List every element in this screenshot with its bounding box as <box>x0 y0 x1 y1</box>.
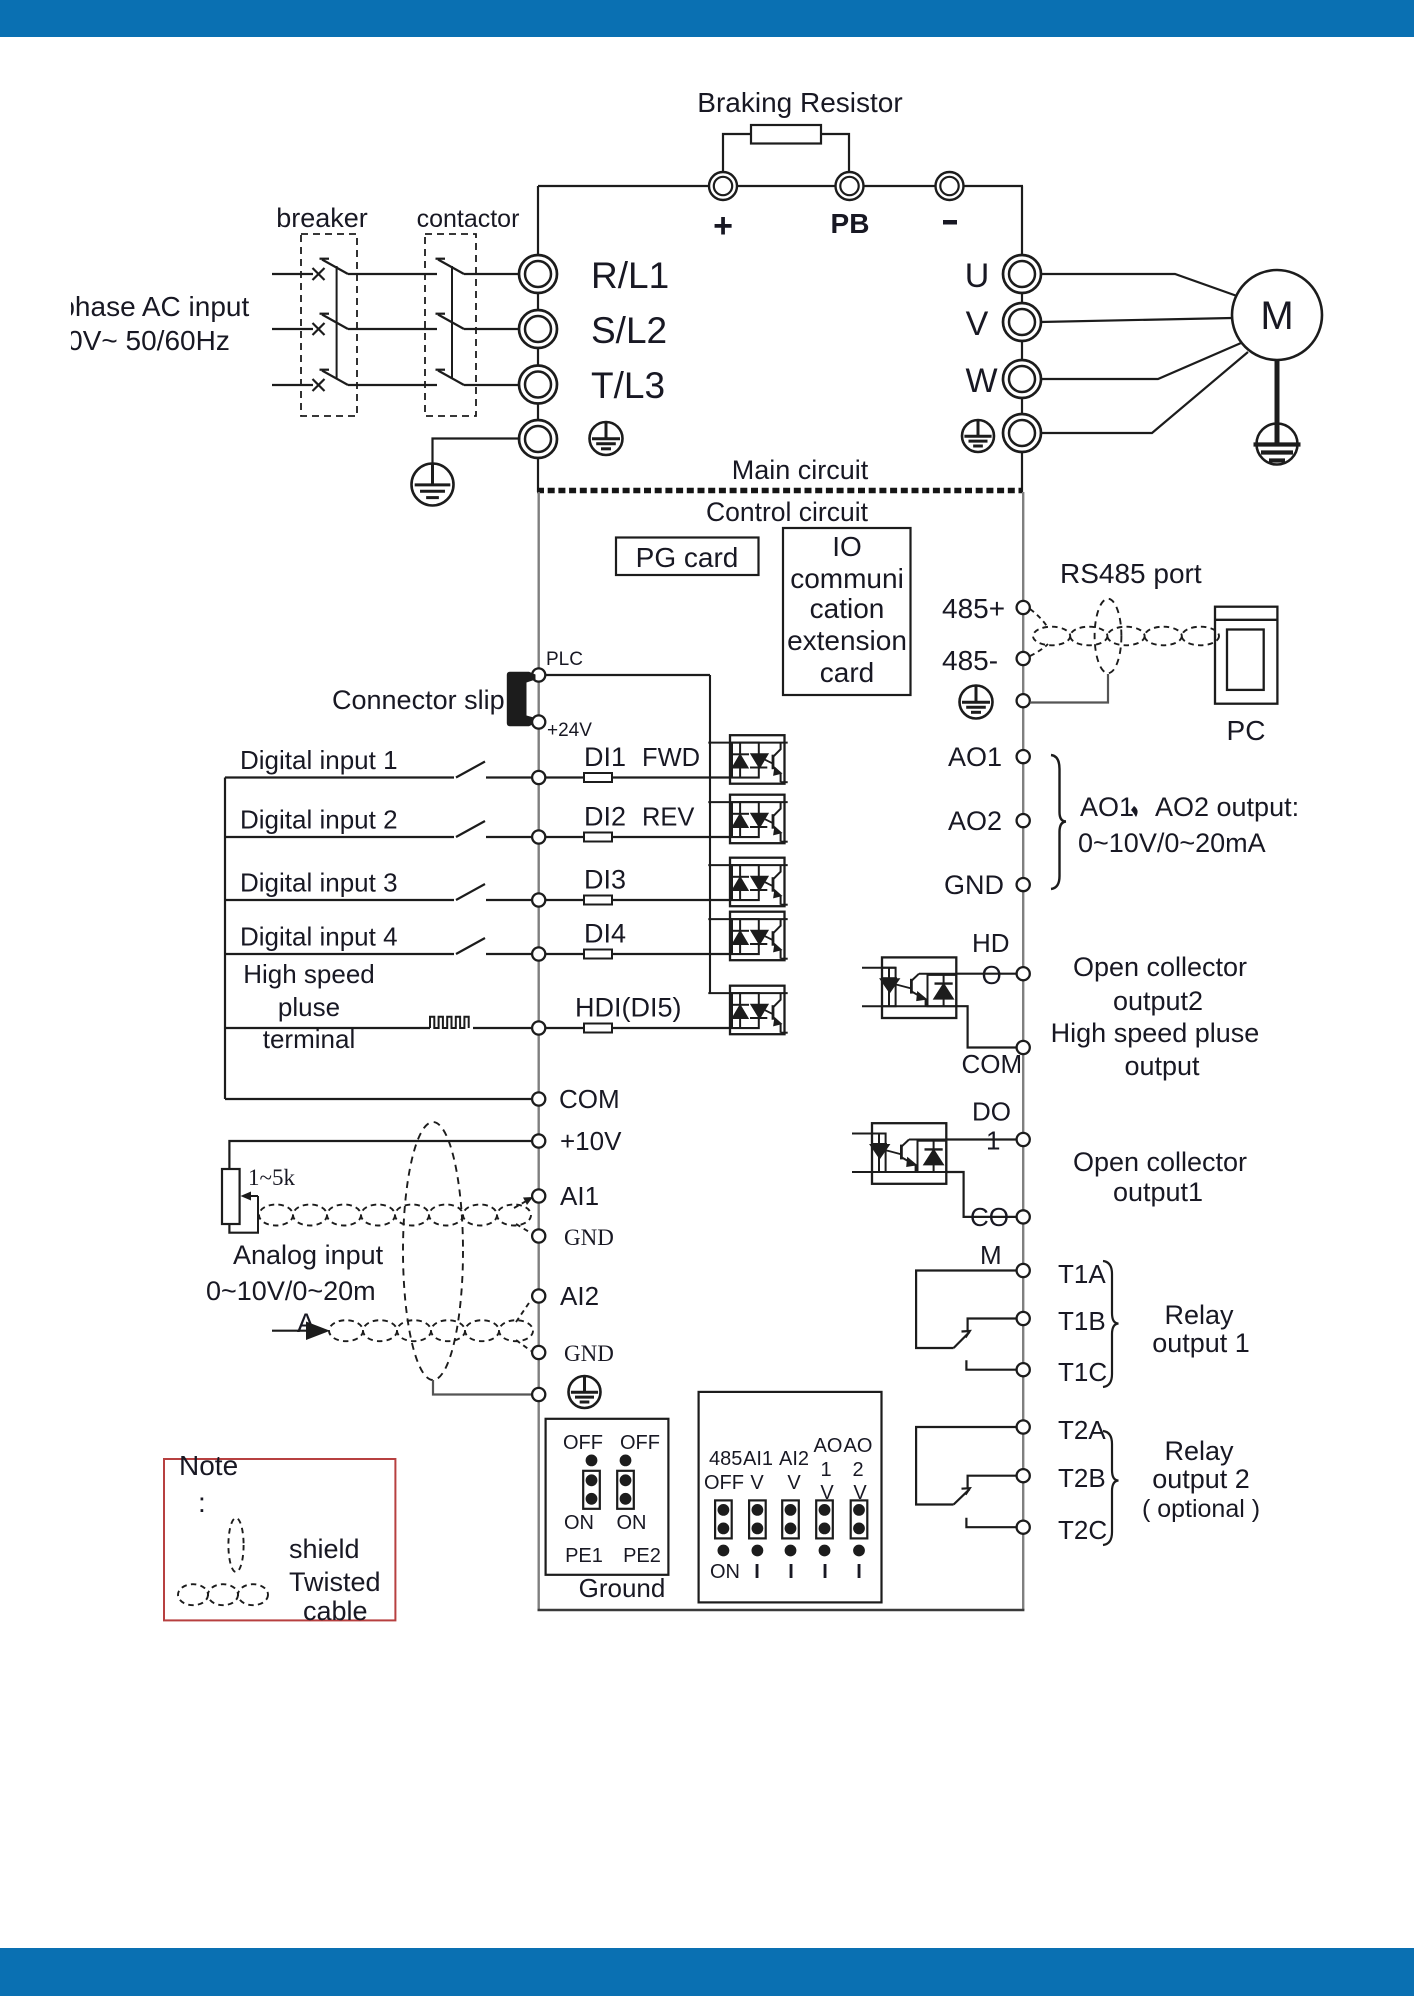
terminal DI4 <box>532 947 545 960</box>
svg-text:DI3: DI3 <box>584 865 626 895</box>
wire 485- into pair <box>1030 644 1048 656</box>
terminal T1C <box>1017 1363 1030 1376</box>
box config DIP <box>699 1392 882 1603</box>
terminal AI1 <box>532 1189 545 1202</box>
svg-text:output: output <box>1124 1051 1200 1081</box>
svg-text:PG card: PG card <box>636 542 739 573</box>
svg-text:Digital input 4: Digital input 4 <box>240 922 398 952</box>
svg-text:AO1: AO1 <box>948 742 1002 772</box>
PC box <box>1215 607 1277 704</box>
wire Digital input 2 to switch <box>225 836 454 838</box>
note twisted pair <box>178 1584 268 1605</box>
svg-text:High speed: High speed <box>243 959 375 989</box>
svg-text:PC: PC <box>1227 715 1266 746</box>
brace AO <box>1051 755 1066 889</box>
switch Digital input 1 <box>456 762 485 778</box>
svg-text:T2C: T2C <box>1058 1515 1107 1545</box>
jumper dip1 <box>715 1500 732 1538</box>
svg-text:T2A: T2A <box>1058 1415 1106 1445</box>
note box <box>164 1459 395 1620</box>
wire U to motor <box>1040 274 1237 296</box>
wire switch to terminal DI1 <box>486 776 532 778</box>
relay common pole <box>916 1271 1017 1349</box>
wire bus to COM <box>225 1098 532 1100</box>
label ideographic comma <box>1131 806 1138 817</box>
terminal COM left <box>532 1092 545 1105</box>
svg-text:ON: ON <box>564 1512 594 1534</box>
terminal PB <box>836 172 864 200</box>
wire Digital input 1 to switch <box>225 776 454 778</box>
wire input L2 segment1 <box>272 328 313 330</box>
svg-text:HD: HD <box>972 928 1010 958</box>
breaker pole X L2 <box>313 323 325 335</box>
contactor blade L3 <box>436 370 465 385</box>
svg-text:Digital input 3: Digital input 3 <box>240 868 398 898</box>
wire 485+ into pair <box>1030 609 1048 628</box>
terminal PE analog <box>532 1388 545 1401</box>
terminal PE 485 <box>1017 694 1030 707</box>
svg-text:T2B: T2B <box>1058 1463 1106 1493</box>
contactor link line <box>451 266 453 378</box>
wire top bus left <box>538 185 709 187</box>
wire PE left to earth <box>433 439 521 465</box>
resistor DI2 <box>584 833 612 842</box>
svg-text:+: + <box>713 207 733 245</box>
resistor DI3 <box>584 896 612 905</box>
terminal COM right <box>1017 1041 1030 1054</box>
svg-text:pluse: pluse <box>278 992 340 1022</box>
svg-text:DI2: DI2 <box>584 802 626 832</box>
terminal T2B <box>1017 1469 1030 1482</box>
terminal AO1 <box>1017 750 1030 763</box>
svg-text:O: O <box>982 960 1002 990</box>
terminal PE left <box>519 420 557 458</box>
svg-text:( optional ): ( optional ) <box>1142 1495 1260 1523</box>
terminal - <box>936 172 964 200</box>
svg-text:T/L3: T/L3 <box>591 365 665 406</box>
terminal DI2 <box>532 830 545 843</box>
svg-text:Braking Resistor: Braking Resistor <box>697 87 902 118</box>
svg-text:PE2: PE2 <box>623 1545 661 1567</box>
terminal 485+ <box>1017 601 1030 614</box>
svg-text:Main circuit: Main circuit <box>732 455 869 485</box>
jumper dip2 <box>749 1500 766 1538</box>
terminal PE right <box>1003 414 1041 452</box>
separator dotted line <box>537 488 1022 494</box>
svg-text:OFF: OFF <box>620 1432 660 1454</box>
terminal U <box>1003 255 1041 293</box>
optocoupler HDI(DI5) <box>708 986 787 1034</box>
svg-text:Open collector: Open collector <box>1073 952 1247 982</box>
note shield ellipse <box>228 1518 243 1572</box>
earth symbol near PE left <box>590 422 623 455</box>
svg-text:OFF: OFF <box>563 1432 603 1454</box>
twisted pair RS485 <box>1033 627 1219 646</box>
svg-text:output2: output2 <box>1113 986 1203 1016</box>
dot dip3 bottom <box>785 1545 797 1557</box>
svg-text::: : <box>198 1487 206 1518</box>
resistor braking <box>751 125 821 144</box>
switch Digital input 3 <box>456 884 485 900</box>
terminal +10V <box>532 1134 545 1147</box>
wire DO opto to CO <box>946 1172 1016 1217</box>
svg-text:AI1: AI1 <box>743 1448 773 1470</box>
relay NC contact wire <box>966 1360 1016 1370</box>
svg-text:IO: IO <box>832 531 862 562</box>
svg-text:M: M <box>980 1240 1002 1270</box>
box PG card <box>616 538 759 576</box>
optocoupler DI1 <box>708 735 787 784</box>
box ground DIP <box>546 1419 669 1575</box>
svg-text:V: V <box>966 305 989 343</box>
jumper dip4 <box>816 1500 833 1538</box>
optocoupler DI2 <box>708 795 787 844</box>
wire resistor DI1 to opto <box>612 776 730 778</box>
svg-text:2: 2 <box>852 1459 863 1481</box>
breaker pole X L1 <box>313 268 325 280</box>
wire chain2 to AI2 <box>516 1300 531 1322</box>
wire V to motor <box>1040 318 1232 322</box>
terminal DO <box>1017 1133 1030 1146</box>
wire DI3 to resistor <box>545 899 584 901</box>
svg-text:Note: Note <box>179 1450 238 1481</box>
wire HD opto to COM <box>956 1006 1016 1047</box>
relay blade <box>954 1488 970 1504</box>
earth symbol bottom left <box>412 464 454 506</box>
svg-text:Analog input: Analog input <box>233 1240 384 1270</box>
svg-text:Open collector: Open collector <box>1073 1147 1247 1177</box>
dot dip2 bottom <box>752 1545 764 1557</box>
svg-text:Relay: Relay <box>1164 1436 1234 1466</box>
svg-text:I: I <box>822 1561 828 1583</box>
earth symbol near PE right <box>962 420 994 452</box>
svg-text:T1A: T1A <box>1058 1259 1106 1289</box>
svg-text:1: 1 <box>820 1459 831 1481</box>
shield ellipse RS485 <box>1095 599 1122 673</box>
svg-text:GND: GND <box>564 1341 614 1366</box>
wire HDI left <box>225 1027 430 1029</box>
svg-text:0~10V/0~20m: 0~10V/0~20m <box>206 1276 376 1306</box>
svg-text:PLC: PLC <box>546 649 583 670</box>
header bar <box>0 0 1414 37</box>
wire left rail main <box>537 186 539 492</box>
svg-text:REV: REV <box>642 804 694 832</box>
svg-text:breaker: breaker <box>276 203 368 233</box>
dot dip1 bottom <box>718 1545 730 1557</box>
wire shield drain analog <box>433 1380 532 1395</box>
svg-text:OFF: OFF <box>704 1472 744 1494</box>
terminal HD <box>1017 967 1030 980</box>
wire switch to terminal DI4 <box>486 953 532 955</box>
optocoupler DI3 <box>708 858 787 907</box>
switch Digital input 2 <box>456 821 485 837</box>
jumper dip5 <box>851 1500 868 1538</box>
pulse waveform <box>430 1017 469 1028</box>
terminal GND2 <box>532 1346 545 1359</box>
relay NO contact wire <box>968 1319 1017 1332</box>
svg-text:485-: 485- <box>942 645 998 676</box>
wire digital input bus <box>224 778 226 1100</box>
svg-text:AI2: AI2 <box>560 1281 599 1311</box>
wire left rail control <box>538 492 540 1610</box>
breaker dashed box <box>301 234 357 416</box>
contactor dashed box <box>425 234 476 416</box>
svg-text:S/L2: S/L2 <box>591 310 667 351</box>
svg-text:U: U <box>965 257 990 295</box>
svg-text:T1B: T1B <box>1058 1306 1106 1336</box>
breaker blade L3 <box>320 370 349 385</box>
svg-text:Ground: Ground <box>579 1573 666 1603</box>
svg-text:T1C: T1C <box>1058 1357 1107 1387</box>
wire bottom edge <box>538 1609 1025 1611</box>
svg-text:Control circuit: Control circuit <box>706 497 869 527</box>
svg-text:Twisted: Twisted <box>289 1567 381 1597</box>
twisted pair AI1 <box>259 1205 531 1226</box>
svg-text:DO: DO <box>972 1097 1011 1127</box>
svg-text:COM: COM <box>559 1084 620 1114</box>
svg-text:cation: cation <box>810 593 885 624</box>
contactor blade L2 <box>436 314 465 329</box>
svg-text:output1: output1 <box>1113 1177 1203 1207</box>
svg-text:Digital input 2: Digital input 2 <box>240 805 398 835</box>
wire chain1 to GND <box>516 1224 531 1233</box>
wire between PB and - <box>863 185 936 187</box>
svg-text:R/L1: R/L1 <box>591 255 669 296</box>
brace relay 1 <box>1103 1261 1119 1387</box>
wire resistor DI4 to opto <box>612 953 730 955</box>
wire PLC bus top <box>545 674 710 676</box>
svg-text:AO2: AO2 <box>948 806 1002 836</box>
wire contactor to terminal L3 <box>464 384 521 386</box>
optocoupler U6 HD <box>862 957 956 1018</box>
wire HD out <box>956 973 1016 975</box>
breaker blade L2 <box>320 314 349 329</box>
wire +10V to pot <box>229 1141 532 1169</box>
jumper PE1 <box>583 1471 600 1509</box>
svg-text:PB: PB <box>831 208 870 239</box>
dot PE1 top <box>586 1455 598 1467</box>
optocoupler DI4 <box>708 912 787 961</box>
wire DI4 to resistor <box>545 953 584 955</box>
brace relay 2 <box>1103 1431 1119 1545</box>
wire contactor to terminal L2 <box>464 328 521 330</box>
svg-text:output 2: output 2 <box>1152 1464 1250 1494</box>
svg-text:communi: communi <box>790 563 904 594</box>
terminal AI2 <box>532 1289 545 1302</box>
svg-text:I: I <box>754 1561 760 1583</box>
svg-text:HDI(DI5): HDI(DI5) <box>575 993 682 1023</box>
shield ellipse analog <box>403 1122 463 1380</box>
dot dip5 bottom <box>853 1545 865 1557</box>
terminal T/L3 <box>519 366 557 404</box>
white clip patch <box>0 288 71 358</box>
relay common pole <box>916 1427 1017 1505</box>
wire shield drain RS485 <box>1030 674 1108 703</box>
svg-text:DI1: DI1 <box>584 742 626 772</box>
svg-text:PE1: PE1 <box>565 1545 603 1567</box>
earth symbol 485 <box>960 686 993 719</box>
terminal T1A <box>1017 1264 1030 1277</box>
relay blade <box>954 1331 970 1348</box>
wire right rail control <box>1022 492 1024 1610</box>
svg-text:card: card <box>820 657 874 688</box>
svg-text:I: I <box>856 1561 862 1583</box>
svg-text:AO: AO <box>844 1435 873 1457</box>
wire between + and PB <box>737 185 836 187</box>
wire chain1 to AI1 arrow <box>514 1200 528 1208</box>
terminal R/L1 <box>519 255 557 293</box>
terminal W <box>1003 360 1041 398</box>
wire HDI(DI5) to resistor <box>545 1027 584 1029</box>
relay NO contact wire <box>968 1476 1017 1489</box>
svg-text:Digital input 1: Digital input 1 <box>240 745 398 775</box>
svg-text:485+: 485+ <box>942 593 1005 624</box>
terminal DI1 <box>532 771 545 784</box>
wire DO out <box>946 1138 1016 1140</box>
resistor DI1 <box>584 773 612 782</box>
wire pot bottom <box>229 1224 259 1233</box>
switch Digital input 4 <box>456 938 485 954</box>
wire DI1 to resistor <box>545 776 584 778</box>
jumper dip3 <box>782 1500 799 1538</box>
svg-text:M: M <box>1260 294 1293 338</box>
dot PE2 top <box>620 1455 632 1467</box>
potentiometer 1-5k <box>222 1169 240 1224</box>
terminal +24V <box>532 715 545 728</box>
terminal S/L2 <box>519 310 557 348</box>
wire resistor HDI(DI5) to opto <box>612 1027 730 1029</box>
terminal T2A <box>1017 1420 1030 1433</box>
wire PE to motor <box>1040 352 1248 433</box>
motor M <box>1232 270 1322 360</box>
wire switch to terminal DI2 <box>486 836 532 838</box>
wire Digital input 3 to switch <box>225 899 454 901</box>
svg-text:+10V: +10V <box>560 1126 622 1156</box>
label - <box>943 220 957 225</box>
wire switch to terminal DI3 <box>486 899 532 901</box>
terminal PLC <box>532 668 545 681</box>
svg-text:W: W <box>965 362 997 400</box>
wire chain2 to GND2 <box>516 1340 531 1351</box>
svg-text:AI2: AI2 <box>779 1448 809 1470</box>
svg-text:ON: ON <box>710 1561 740 1583</box>
svg-text:485: 485 <box>709 1448 742 1470</box>
wire W to motor <box>1040 343 1241 379</box>
terminal AO2 <box>1017 814 1030 827</box>
svg-text:V: V <box>750 1472 764 1494</box>
wire breaker to contactor L1 <box>348 273 437 275</box>
svg-text:Connector slip: Connector slip <box>332 685 505 715</box>
svg-text:V: V <box>787 1472 801 1494</box>
svg-text:GND: GND <box>944 870 1004 900</box>
svg-text:1~5k: 1~5k <box>248 1165 295 1190</box>
svg-text:cable: cable <box>303 1596 368 1626</box>
terminal DI3 <box>532 893 545 906</box>
terminal CO <box>1017 1210 1030 1223</box>
svg-text:Relay: Relay <box>1164 1300 1234 1330</box>
terminal GND1 <box>532 1229 545 1242</box>
wire resistor right stub <box>821 134 849 172</box>
terminal + <box>709 172 737 200</box>
svg-text:CO: CO <box>970 1202 1009 1232</box>
connector slip <box>507 672 536 726</box>
breaker pole X L3 <box>313 379 325 391</box>
wire resistor DI3 to opto <box>612 899 730 901</box>
earth symbol motor <box>1254 424 1301 465</box>
svg-text:DI4: DI4 <box>584 919 626 949</box>
wire breaker to contactor L2 <box>348 328 437 330</box>
svg-text:0~10V/0~20mA: 0~10V/0~20mA <box>1078 828 1266 858</box>
wire Digital input 4 to switch <box>225 953 454 955</box>
wire right rail main <box>1021 186 1023 492</box>
wire contactor to terminal L1 <box>464 273 521 275</box>
svg-text:AO: AO <box>814 1435 843 1457</box>
wire input L3 segment1 <box>272 384 313 386</box>
terminal HDI(DI5) <box>532 1021 545 1034</box>
svg-text:GND: GND <box>564 1225 614 1250</box>
svg-text:ON: ON <box>617 1512 647 1534</box>
relay NC contact wire <box>966 1518 1016 1528</box>
arrow AI2 input <box>272 1322 330 1341</box>
box IO communication extension card <box>783 528 911 695</box>
terminal T1B <box>1017 1312 1030 1325</box>
svg-text:contactor: contactor <box>417 205 520 233</box>
svg-text:+24V: +24V <box>547 720 592 741</box>
wire input L1 segment1 <box>272 273 313 275</box>
svg-text:RS485 port: RS485 port <box>1060 558 1202 589</box>
svg-text:AO1: AO1 <box>1080 792 1134 822</box>
svg-text:COM: COM <box>962 1049 1023 1079</box>
svg-text:AO2 output:: AO2 output: <box>1155 792 1299 822</box>
wire DI2 to resistor <box>545 836 584 838</box>
terminal GND right <box>1017 878 1030 891</box>
earth symbol analog <box>569 1376 601 1408</box>
wire resistor DI2 to opto <box>612 836 730 838</box>
contactor blade L1 <box>436 259 465 274</box>
terminal 485- <box>1017 652 1030 665</box>
svg-text:extension: extension <box>787 625 907 656</box>
optocoupler U7 DO <box>852 1123 946 1184</box>
svg-text:shield: shield <box>289 1534 360 1564</box>
wire breaker to contactor L3 <box>348 384 437 386</box>
wire from - to right rail <box>963 185 1023 187</box>
svg-text:AI1: AI1 <box>560 1181 599 1211</box>
svg-text:I: I <box>788 1561 794 1583</box>
footer bar <box>0 1948 1414 1996</box>
resistor DI4 <box>584 950 612 959</box>
svg-text:output 1: output 1 <box>1152 1328 1250 1358</box>
breaker blade L1 <box>320 259 349 274</box>
dot dip4 bottom <box>819 1545 831 1557</box>
resistor HDI(DI5) <box>584 1024 612 1033</box>
wire resistor left stub <box>723 134 751 172</box>
terminal T2C <box>1017 1521 1030 1534</box>
wire motor ground <box>1275 360 1280 426</box>
wire opto feed bus <box>709 675 711 993</box>
breaker link line <box>336 266 338 378</box>
pot wiper arrow <box>241 1192 259 1233</box>
jumper PE2 <box>617 1471 634 1509</box>
wire pulse to HDI <box>473 1027 532 1029</box>
terminal V <box>1003 303 1041 341</box>
svg-text:High speed pluse: High speed pluse <box>1051 1018 1260 1048</box>
svg-text:FWD: FWD <box>642 744 700 772</box>
twisted pair AI2 <box>329 1320 533 1341</box>
